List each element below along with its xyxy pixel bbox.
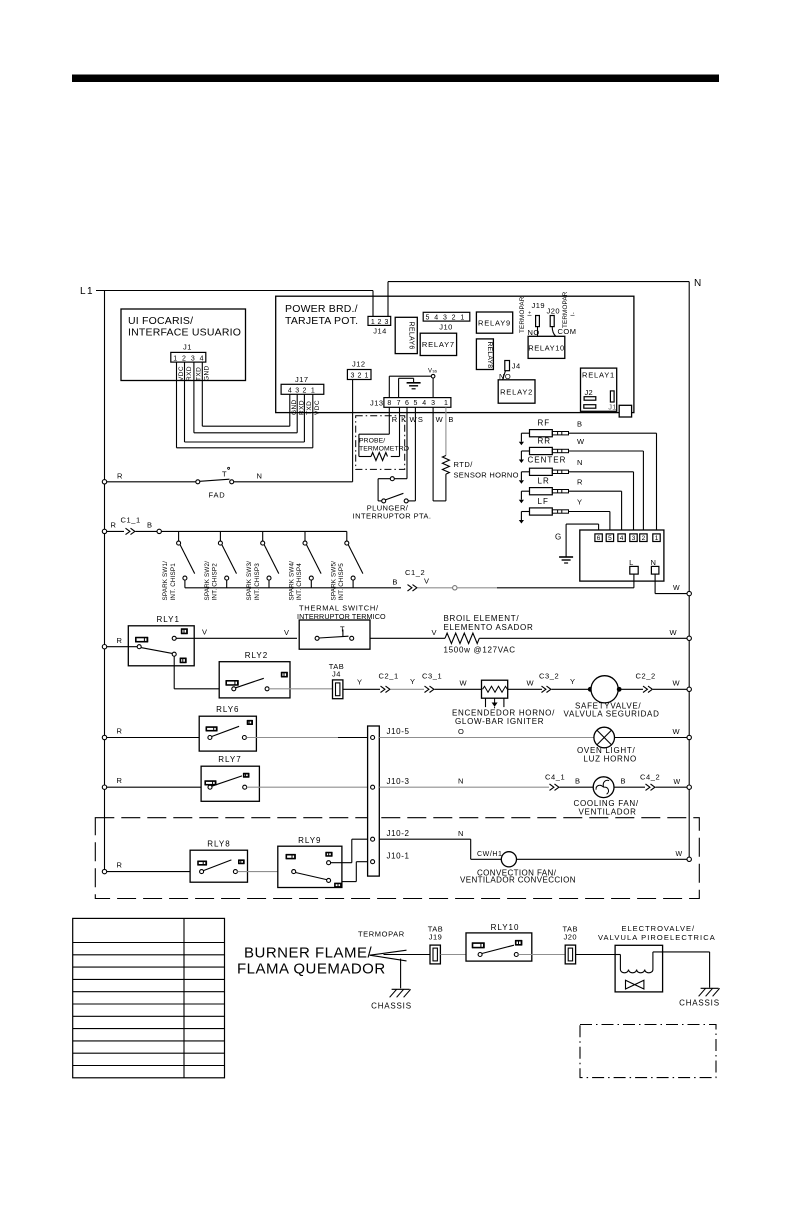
svg-text:V: V	[432, 628, 438, 637]
svg-text:VALVULA PIROELECTRICA: VALVULA PIROELECTRICA	[598, 933, 716, 942]
svg-text:POWER BRD./: POWER BRD./	[285, 303, 358, 315]
svg-text:N: N	[458, 829, 464, 838]
svg-text:2: 2	[357, 373, 361, 380]
svg-text:V: V	[424, 577, 430, 586]
svg-text:RTD/: RTD/	[454, 460, 474, 469]
svg-text:W: W	[673, 727, 681, 736]
svg-text:BROIL ELEMENT/: BROIL ELEMENT/	[444, 614, 520, 623]
svg-text:4: 4	[434, 315, 438, 322]
svg-text:INT. CHISP2: INT. CHISP2	[212, 563, 219, 601]
svg-text:J10-5: J10-5	[387, 727, 410, 736]
svg-text:C4_1: C4_1	[545, 772, 565, 781]
svg-text:INTERFACE USUARIO: INTERFACE USUARIO	[128, 327, 241, 339]
svg-text:ELECTROVALVE/: ELECTROVALVE/	[622, 924, 696, 933]
svg-text:LF: LF	[538, 497, 549, 506]
svg-text:RXD: RXD	[186, 366, 193, 381]
svg-text:J2: J2	[585, 388, 594, 397]
svg-text:2: 2	[452, 315, 456, 322]
svg-text:GLOW-BAR IGNITER: GLOW-BAR IGNITER	[455, 717, 544, 726]
svg-text:VDC: VDC	[178, 366, 185, 381]
svg-text:L1: L1	[80, 286, 94, 297]
svg-text:INT. CHISP4: INT. CHISP4	[296, 563, 303, 601]
svg-text:TXD: TXD	[306, 401, 313, 415]
svg-text:7: 7	[397, 400, 401, 407]
svg-text:1: 1	[311, 387, 315, 394]
svg-text:TERMOPAR: TERMOPAR	[519, 296, 526, 333]
svg-text:W: W	[673, 679, 681, 688]
svg-text:G: G	[555, 533, 562, 542]
svg-text:B: B	[575, 777, 581, 786]
svg-text:SPARK SW2/: SPARK SW2/	[204, 561, 211, 601]
svg-text:C1_2: C1_2	[405, 568, 425, 577]
svg-text:3: 3	[350, 373, 354, 380]
svg-text:V: V	[284, 628, 290, 637]
svg-text:N: N	[694, 278, 702, 289]
svg-text:GND: GND	[204, 365, 211, 381]
svg-text:I+: I+	[528, 310, 534, 316]
svg-text:R: R	[117, 636, 123, 645]
svg-text:K: K	[401, 415, 406, 424]
svg-text:UI FOCARIS/: UI FOCARIS/	[128, 315, 193, 327]
svg-text:2: 2	[302, 387, 306, 394]
svg-text:3: 3	[431, 400, 435, 407]
svg-text:J20: J20	[564, 932, 578, 941]
svg-text:8: 8	[387, 400, 391, 407]
svg-text:C1_1: C1_1	[121, 516, 141, 525]
svg-text:RLY6: RLY6	[216, 705, 239, 714]
svg-text:COM: COM	[558, 327, 577, 336]
svg-text:RR: RR	[538, 437, 552, 446]
svg-text:C4_2: C4_2	[640, 772, 660, 781]
svg-text:R: R	[392, 415, 398, 424]
svg-text:W: W	[670, 628, 678, 637]
svg-text:4: 4	[620, 535, 624, 542]
svg-text:RLY10: RLY10	[491, 923, 520, 932]
svg-text:W: W	[676, 851, 683, 858]
svg-text:FLAMA QUEMADOR: FLAMA QUEMADOR	[237, 961, 386, 978]
svg-text:4: 4	[200, 355, 204, 362]
svg-text:B: B	[621, 777, 627, 786]
svg-text:TERMOPAR: TERMOPAR	[358, 930, 405, 939]
svg-text:TERMOPAR: TERMOPAR	[562, 291, 569, 328]
svg-text:RF: RF	[538, 419, 551, 428]
svg-text:V: V	[202, 628, 208, 637]
svg-text:TERMOMETRO: TERMOMETRO	[359, 446, 409, 453]
svg-text:TXD: TXD	[195, 367, 202, 381]
svg-text:2: 2	[642, 535, 646, 542]
svg-text:RLY7: RLY7	[218, 755, 241, 764]
svg-text:B: B	[147, 521, 153, 530]
svg-text:J14: J14	[373, 327, 387, 336]
svg-text:CHASSIS: CHASSIS	[371, 1002, 412, 1011]
svg-text:3: 3	[295, 387, 299, 394]
svg-text:PROBE/: PROBE/	[359, 438, 385, 445]
svg-text:W: W	[673, 585, 680, 592]
svg-text:C2_2: C2_2	[636, 672, 656, 681]
svg-text:W: W	[410, 415, 418, 424]
svg-text:J10-1: J10-1	[387, 852, 410, 861]
svg-text:2: 2	[182, 355, 186, 362]
svg-text:J1: J1	[183, 343, 192, 352]
svg-text:INTERRUPTOR PTA.: INTERRUPTOR PTA.	[353, 512, 432, 521]
svg-text:3: 3	[443, 315, 447, 322]
svg-text:R: R	[117, 472, 123, 481]
svg-text:LUZ HORNO: LUZ HORNO	[584, 754, 637, 763]
svg-text:RELAY2: RELAY2	[500, 388, 533, 397]
svg-text:T: T	[340, 625, 345, 634]
svg-text:VDC: VDC	[314, 400, 321, 415]
svg-text:R: R	[117, 861, 123, 870]
svg-text:3: 3	[191, 355, 195, 362]
svg-text:RELAY6: RELAY6	[408, 322, 415, 350]
svg-text:3: 3	[385, 319, 389, 326]
svg-text:LR: LR	[538, 477, 550, 486]
svg-text:1: 1	[460, 315, 464, 322]
svg-text:W: W	[577, 437, 585, 446]
svg-text:R: R	[111, 521, 117, 530]
svg-text:W: W	[436, 415, 444, 424]
svg-text:5: 5	[426, 315, 430, 322]
svg-text:R: R	[577, 477, 583, 486]
svg-text:VALVULA SEGURIDAD: VALVULA SEGURIDAD	[564, 710, 660, 719]
svg-text:1: 1	[173, 355, 177, 362]
svg-text:J4: J4	[512, 362, 521, 371]
svg-text:1: 1	[655, 535, 659, 542]
svg-text:VENTILADOR: VENTILADOR	[579, 808, 637, 817]
svg-text:J10-3: J10-3	[387, 777, 410, 786]
svg-text:J19: J19	[532, 301, 546, 310]
svg-text:RELAY8: RELAY8	[486, 342, 493, 369]
svg-text:SPARK SW3/: SPARK SW3/	[246, 561, 253, 601]
svg-text:J17: J17	[295, 375, 309, 384]
svg-text:RELAY1: RELAY1	[582, 371, 615, 380]
svg-text:J4: J4	[332, 670, 341, 679]
svg-text:CHASSIS: CHASSIS	[679, 999, 720, 1008]
svg-text:Y: Y	[357, 678, 363, 687]
svg-text:B: B	[392, 578, 398, 587]
svg-text:VENTILADOR CONVECCION: VENTILADOR CONVECCION	[460, 875, 576, 884]
svg-text:6: 6	[597, 535, 601, 542]
svg-text:B: B	[577, 419, 583, 428]
svg-text:1: 1	[364, 373, 368, 380]
svg-text:RELAY10: RELAY10	[528, 344, 565, 353]
svg-text:BURNER FLAME/: BURNER FLAME/	[244, 945, 373, 962]
svg-text:I-: I-	[571, 312, 577, 316]
svg-text:R: R	[117, 727, 123, 736]
svg-text:J19: J19	[429, 932, 443, 941]
svg-text:RLY2: RLY2	[245, 651, 268, 660]
svg-text:ELEMENTO ASADOR: ELEMENTO ASADOR	[444, 623, 534, 632]
svg-text:6: 6	[405, 400, 409, 407]
svg-text:B: B	[448, 415, 453, 424]
svg-text:V: V	[428, 369, 432, 375]
svg-text:SENSOR HORNO: SENSOR HORNO	[454, 471, 519, 480]
svg-text:C2_1: C2_1	[379, 672, 399, 681]
svg-text:INT. CHISP3: INT. CHISP3	[254, 563, 261, 601]
svg-text:J1: J1	[608, 403, 617, 412]
svg-text:4: 4	[422, 400, 426, 407]
svg-text:N: N	[257, 472, 263, 481]
svg-text:Y: Y	[570, 677, 576, 686]
svg-text:J20: J20	[547, 307, 561, 316]
svg-text:TARJETA POT.: TARJETA POT.	[285, 315, 358, 327]
svg-text:RLY9: RLY9	[298, 836, 321, 845]
svg-text:INT. CHISP1: INT. CHISP1	[170, 563, 177, 601]
svg-text:W: W	[460, 679, 468, 688]
svg-text:RLY8: RLY8	[207, 839, 230, 848]
svg-text:Y: Y	[410, 677, 416, 686]
svg-text:W: W	[527, 679, 535, 688]
svg-text:RLY1: RLY1	[157, 615, 180, 624]
svg-text:4: 4	[288, 387, 292, 394]
svg-text:Y: Y	[577, 498, 583, 507]
svg-text:INT. CHISP5: INT. CHISP5	[338, 563, 345, 601]
svg-text:SPARK SW5/: SPARK SW5/	[330, 561, 337, 601]
svg-text:GND: GND	[291, 399, 298, 415]
svg-text:RELAY9: RELAY9	[478, 319, 511, 328]
svg-text:C3_1: C3_1	[422, 672, 442, 681]
svg-text:FAD: FAD	[209, 491, 226, 500]
svg-text:RELAY7: RELAY7	[422, 340, 455, 349]
svg-text:J10: J10	[439, 323, 453, 332]
svg-text:W: W	[674, 779, 681, 786]
svg-text:3: 3	[632, 535, 636, 542]
svg-text:CENTER: CENTER	[528, 456, 567, 465]
svg-text:C3_2: C3_2	[539, 672, 559, 681]
svg-text:1500w @127VAC: 1500w @127VAC	[444, 646, 516, 655]
svg-text:SPARK SW1/: SPARK SW1/	[162, 561, 169, 601]
svg-text:RXD: RXD	[299, 400, 306, 415]
svg-text:J10-2: J10-2	[387, 829, 410, 838]
svg-text:CW/H1: CW/H1	[477, 851, 503, 858]
svg-text:1: 1	[371, 319, 375, 326]
svg-text:SPARK SW4/: SPARK SW4/	[289, 561, 296, 601]
svg-text:R: R	[117, 776, 123, 785]
svg-text:T: T	[222, 470, 227, 479]
svg-text:J13: J13	[370, 398, 384, 407]
svg-text:1: 1	[444, 400, 448, 407]
svg-text:N: N	[577, 458, 583, 467]
svg-text:2: 2	[378, 319, 382, 326]
svg-text:ss: ss	[433, 369, 438, 374]
svg-text:5: 5	[608, 535, 612, 542]
svg-text:N: N	[458, 777, 464, 786]
svg-text:S: S	[418, 415, 423, 424]
svg-text:J12: J12	[352, 360, 366, 369]
svg-text:O: O	[458, 727, 464, 736]
svg-text:5: 5	[413, 400, 417, 407]
